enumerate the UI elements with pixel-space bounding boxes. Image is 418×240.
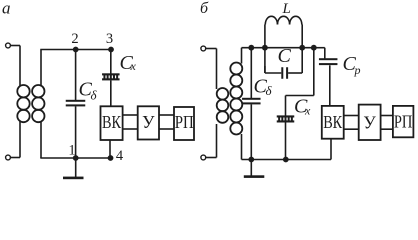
svg-text:РП: РП bbox=[175, 112, 194, 132]
svg-text:р: р bbox=[354, 63, 361, 77]
svg-text:ВК: ВК bbox=[323, 112, 342, 132]
svg-text:ВК: ВК bbox=[102, 112, 121, 132]
svg-text:1: 1 bbox=[68, 143, 75, 159]
svg-text:У: У bbox=[363, 112, 376, 132]
svg-text:2: 2 bbox=[71, 31, 78, 47]
svg-text:L: L bbox=[282, 1, 291, 17]
svg-text:4: 4 bbox=[116, 148, 124, 164]
svg-text:δ: δ bbox=[266, 83, 273, 98]
svg-text:РП: РП bbox=[394, 111, 413, 131]
svg-text:а: а bbox=[2, 0, 11, 17]
svg-text:х: х bbox=[130, 59, 137, 73]
svg-text:У: У bbox=[142, 112, 155, 132]
svg-text:б: б bbox=[200, 0, 209, 17]
svg-text:C: C bbox=[278, 45, 292, 67]
svg-text:х: х bbox=[304, 104, 311, 118]
svg-text:3: 3 bbox=[106, 31, 113, 47]
svg-text:δ: δ bbox=[91, 88, 98, 103]
